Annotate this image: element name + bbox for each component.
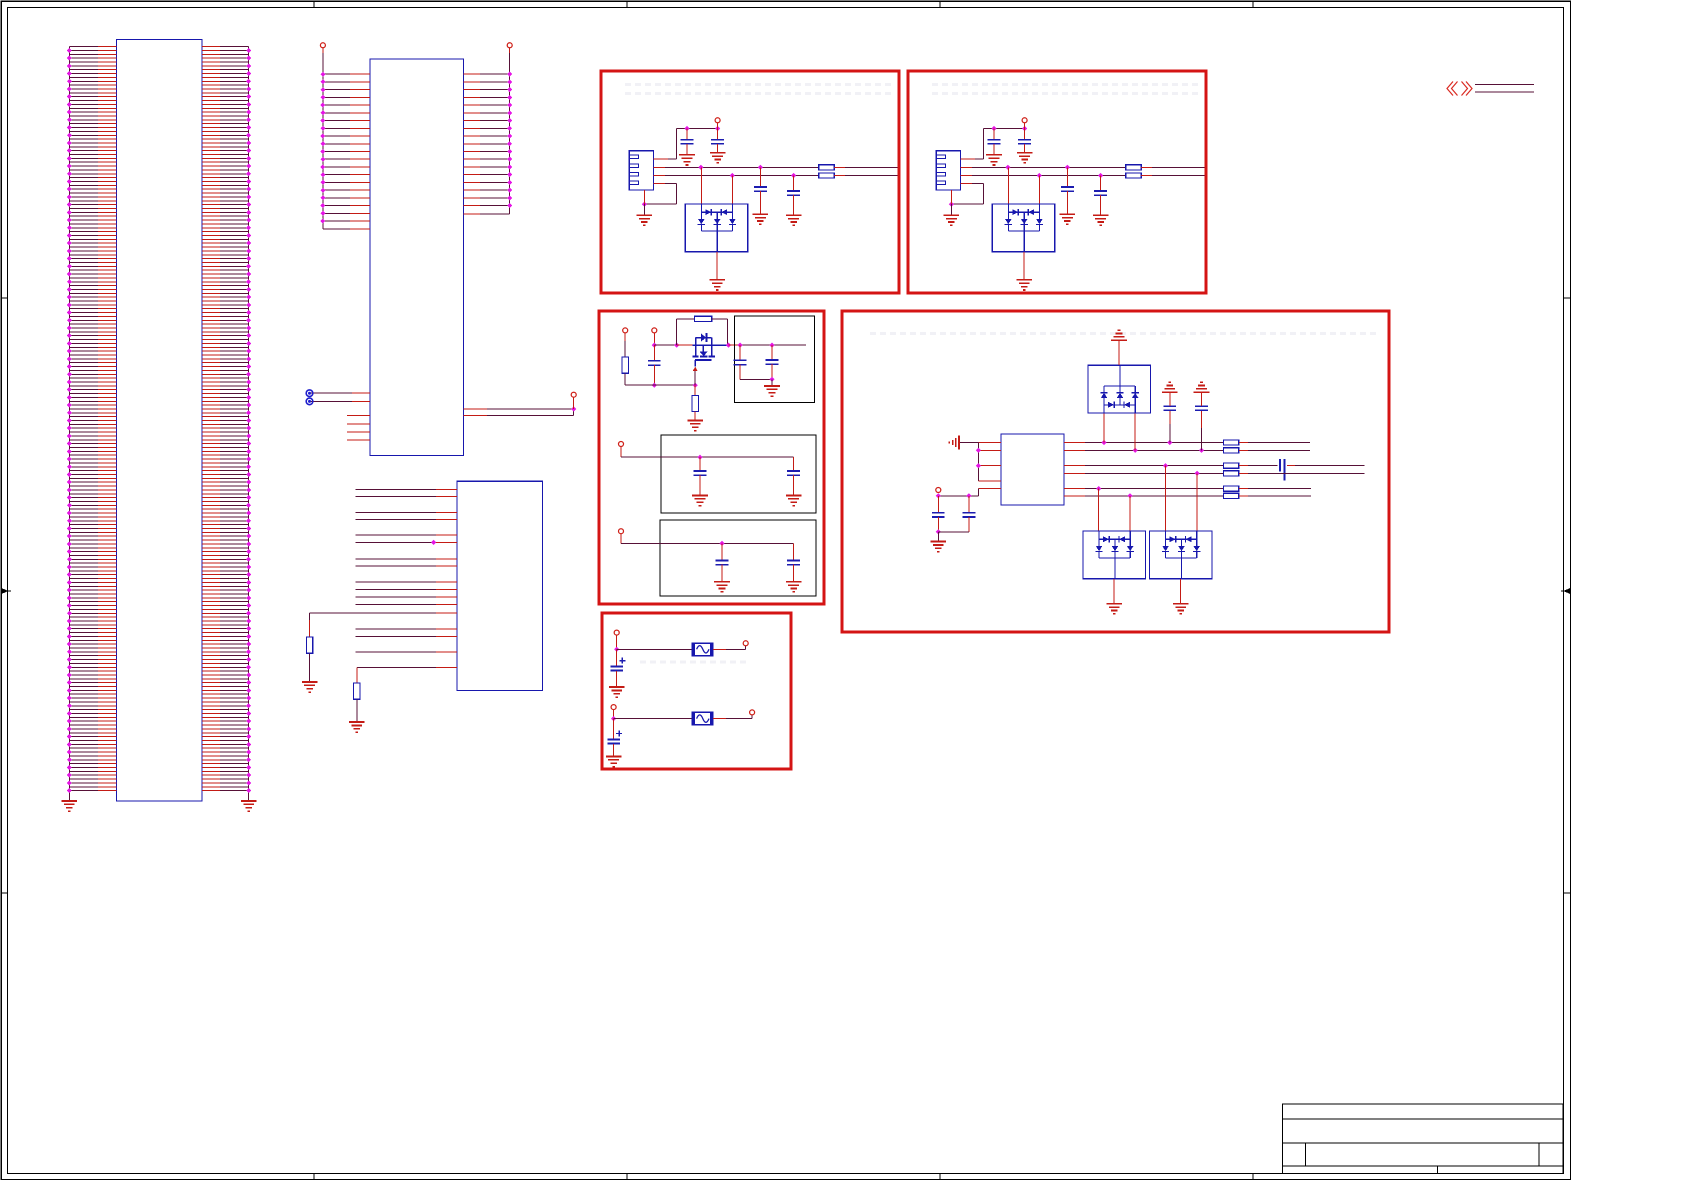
U3 left pin 1 wire [978,442,1001,444]
node dot D-5 [936,529,941,534]
gate net arrow [693,367,698,371]
red group frame C [599,311,824,604]
J1 right pin bus wire [248,47,250,801]
J1 wire junction dots [67,48,251,793]
node dot row4 [1195,471,1200,476]
U3 left bus wire [977,443,979,482]
capacitor C1b [717,129,719,140]
connector J1 body [117,40,203,802]
capacitor C1a [686,129,688,140]
output filter sub-box [735,316,815,402]
node dot 1-6 [791,173,796,178]
U1 no-connect pin A [352,392,370,394]
channel 1 wire [617,648,692,650]
ground for CN1 [637,214,653,216]
terminal above U1 output [571,392,576,397]
capacitor C1c [759,167,761,187]
node dot C-1 [652,343,657,348]
ground for C2c [1060,213,1076,215]
node dot row1 [1101,440,1106,445]
U2 pull resistor wire B [436,667,457,669]
node dot 1-7 [642,202,647,207]
resistor R3 [622,357,628,373]
U3 row3 wire [1064,465,1085,467]
U1 pin junction dots [320,72,512,224]
red group frame D [842,311,1389,632]
node dot E-2 [611,716,616,721]
off-page bus entry symbol [1447,82,1472,96]
MOSFET Q1 [695,338,697,346]
terminal T2 [652,328,657,333]
ghost text row 1 [625,83,893,86]
terminal T8 [611,705,616,710]
resistor R1 [306,637,312,653]
node dot C-8 [697,455,702,460]
CN2 D- wire [961,166,973,168]
U1 right bus wire [509,48,511,53]
ground for C1b [710,152,726,154]
ghost text row D [870,332,1380,335]
node dot 1-2 [715,126,720,131]
U1 left pin net wires [323,74,350,229]
CN2 shield stem [950,190,952,204]
resistor R4 [695,316,712,321]
U1 left terminal [320,43,325,48]
input node wire [654,344,676,346]
terminal T9 [750,710,755,715]
bus wire upper [1475,83,1534,85]
node dot 2-7 [949,202,954,207]
series resistor row1 [1223,440,1238,445]
U3 row4 wire [1064,472,1085,474]
U2 pull resistor wire A [436,612,457,614]
capacitor C5 [653,345,655,361]
CN1 D+ wire [654,175,666,177]
U3 left pin 2 [978,449,1001,451]
U1 right output pin wire A [464,408,488,410]
ground for C2d [1093,214,1109,216]
node dot row6 [1127,493,1132,498]
feedback loop wire [676,319,678,345]
U1 bottom stub pins [347,415,370,417]
U3 row6 wire [1064,495,1085,497]
ferrite bead FB2 [692,712,713,724]
ground for J1 right bus [241,800,257,802]
ground for C11 [786,581,802,583]
VBUS terminal 1 [715,118,720,123]
terminal T4 [619,529,624,534]
capacitor C9 [793,457,795,471]
capacitor C11 [793,543,795,560]
ground for C1c [753,213,769,215]
node dot row3 [1163,463,1168,468]
polarized capacitor C17 [616,649,618,666]
node dot C-9 [719,541,724,546]
U3 left pin 4 [978,480,1001,482]
node dot row2 [1133,448,1138,453]
connector CN1 body [629,151,653,190]
U1 output terminal stem [573,398,575,410]
node dot D-4 [936,493,941,498]
ESD array D3 (top) [1103,412,1105,443]
gate pulldown wire [625,384,695,386]
ground for D5 [1173,603,1189,605]
IC U2 body [457,481,543,690]
sideways ground for U3 [958,436,960,450]
node dot C-2 [652,383,657,388]
resistor R2b [1126,173,1141,178]
FB1 output wire [713,648,726,650]
J1 left pins [98,47,117,791]
capacitor C2a [993,129,995,140]
ghost text row 2 [932,83,1200,86]
ESD array D2 [1007,167,1009,204]
series capacitor C16 [1279,459,1281,472]
node dot 2-1 [991,126,996,131]
node dot row5 [1096,486,1101,491]
node dot 2-2 [1022,126,1027,131]
red group frame 1 [601,71,899,293]
node dot 2-4 [1065,165,1070,170]
output node dot [726,343,731,348]
terminal T6 [614,630,619,635]
node dot C-3 [693,383,698,388]
gate resistor R5 [694,385,696,395]
resistor R2a [1126,165,1141,170]
node dot 2-5 [1037,173,1042,178]
U3 row5 wire [1064,488,1085,490]
feedback loop wire right [712,318,728,320]
ground for D1 [709,279,725,281]
T3 rail wire [620,447,622,457]
capacitor C15 [1201,428,1203,450]
U3 row1 wire [1064,442,1085,444]
ferrite bead FB1 [692,643,713,655]
ground for CN2 [944,214,960,216]
D5 ground stem [1180,579,1182,604]
ground for C18 [606,755,622,757]
border zone ticks [313,1,315,7]
ground for C1d [786,214,802,216]
series resistor row2 [1223,448,1238,453]
J1 left pin net wires [69,47,98,791]
CN1 shield stem [643,190,645,204]
node dot 1-4 [758,165,763,170]
ESD array D2 ground stem [1023,252,1025,280]
capacitor C1d [793,176,795,192]
ground for C8 [692,495,708,497]
series resistor row5 [1223,486,1238,491]
node dot C-4 [674,343,679,348]
ground for R2 [349,721,365,723]
ground for C9 [786,495,802,497]
title block [1283,1104,1564,1174]
node dot D-1 [976,448,981,453]
CN2 GND pin wire [961,182,973,184]
U2 left pin net wires [356,490,436,653]
U1 right terminal [507,43,512,48]
ground for R5 [687,419,703,421]
connector CN2 body [936,151,960,190]
output wire [729,344,741,346]
U1 left bus wire [322,48,324,53]
FB2 output wire [713,718,726,720]
T2 lead [653,333,655,345]
U3 row2 wire [1064,449,1085,451]
series resistor row6 [1223,493,1238,498]
U1 right pins [464,74,481,214]
capacitor C2d [1100,176,1102,192]
ground for C6 C7 [764,385,780,387]
node dot E-1 [614,647,619,652]
J1 right pins [202,47,220,791]
resistor R1a [819,165,834,170]
CN1 pin 1 wire [654,158,669,160]
R2 to ground wire [356,699,358,722]
ESD array D1 [700,167,702,204]
ESD array D1 ground stem [716,252,718,280]
ESD array D4 [1098,489,1100,531]
D3 ground stem [1118,340,1120,365]
IC U3 body [1001,434,1064,505]
right border midpoint arrow [1563,588,1570,594]
terminal T1 [623,328,628,333]
inverted ground for D3 [1111,339,1127,341]
U3 left pin 3 [978,465,1001,467]
node dot on U2 pin wire [431,540,436,545]
ESD array D5 [1165,466,1167,531]
J1 right pin net wires [220,47,249,791]
U1 no-connect pin B [352,400,370,402]
capacitor C7 [771,345,773,360]
terminal T3 [619,442,624,447]
node dot 1-1 [684,126,689,131]
ground for C2a [986,154,1002,156]
U1 right pin net wires [480,74,510,214]
U1 right output pin wire B [464,415,488,417]
T6 wire [616,635,618,649]
polarized capacitor C18 [613,719,615,740]
capacitor C6 [739,345,741,360]
ground for C12 C13 [931,541,947,543]
VBUS terminal 2 [1022,118,1027,123]
T8 wire [613,710,615,719]
capacitor C13 [968,496,970,513]
capacitor C14 [1169,424,1171,443]
U2 left pins [436,490,457,653]
series resistor row3 [1223,463,1238,468]
bus wire lower [1475,91,1534,93]
inverted ground for C14 [1162,391,1178,393]
T1 lead [624,333,626,341]
node dot row2 [1199,448,1204,453]
terminal T7 [743,641,748,646]
node dot C-7 [769,377,774,382]
T4 rail wire [620,534,622,543]
inverted ground for C15 [1194,391,1210,393]
node dot 2-6 [1098,173,1103,178]
resistor R1b [819,173,834,178]
ground for D4 [1106,603,1122,605]
R3 lower wire [624,373,626,385]
CN1 D- wire [654,166,666,168]
C7 ground stem [771,379,773,386]
ground for C1a [679,154,695,156]
capacitor C2b [1024,129,1026,140]
J1 left pin bus wire [68,47,70,801]
terminal T5 [936,488,941,493]
CN2 pin 1 wire [961,158,976,160]
series resistor row4 [1223,471,1238,476]
node dot C-6 [769,343,774,348]
node dot 1-3 [698,165,703,170]
red group frame E [602,613,791,769]
capacitor C8 [699,457,701,471]
U3 left pin 5 wire [978,488,1001,490]
rail sub-box 1 [661,435,816,513]
channel 2 wire [614,718,693,720]
node dot row1 [1167,440,1172,445]
resistor R2 [354,683,360,699]
capacitor C10 [721,543,723,560]
CN1 GND pin wire [654,182,666,184]
ground for C17 [609,686,625,688]
capacitor C12 [937,496,939,513]
node dot 2-3 [1005,165,1010,170]
node dot C-5 [738,343,743,348]
left border midpoint arrow [2,588,9,594]
R1 to ground wire [309,653,311,682]
ground for D2 [1016,279,1032,281]
CN2 D+ wire [961,175,973,177]
D4 ground stem [1113,579,1115,604]
U1 left pins [350,74,370,229]
IC U1 body [370,59,464,456]
node dot D-2 [976,463,981,468]
ground for R1 [302,681,318,683]
red group frame 2 [908,71,1206,293]
node dot 1-5 [730,173,735,178]
ground for C2b [1017,152,1033,154]
ground for J1 left bus [62,800,78,802]
capacitor C2c [1066,167,1068,187]
node dot at U1 output corner [571,406,576,411]
node dot D-3 [966,493,971,498]
ghost text row E [640,661,750,664]
rail sub-box 2 [660,520,816,596]
ground for C10 [714,581,730,583]
